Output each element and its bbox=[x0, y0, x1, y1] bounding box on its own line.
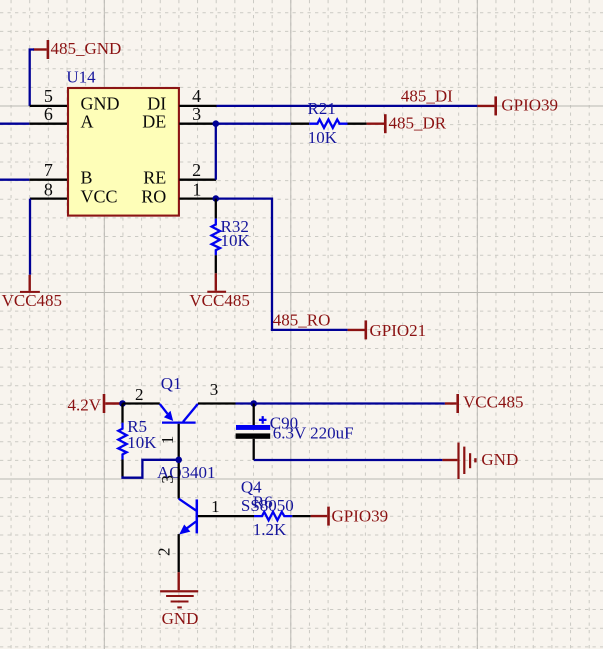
node junction RO bbox=[213, 195, 220, 202]
pin 6 A bbox=[29, 104, 93, 131]
svg-text:U14: U14 bbox=[66, 68, 96, 87]
resistor R32 bbox=[212, 199, 251, 274]
wire net B left bbox=[0, 179, 29, 181]
pin 5 GND bbox=[30, 86, 120, 114]
pin 7 B bbox=[29, 160, 92, 188]
port VCC485 right bbox=[445, 393, 524, 414]
node junction DE bbox=[213, 120, 220, 127]
svg-text:4.2V: 4.2V bbox=[68, 396, 102, 415]
svg-text:1: 1 bbox=[192, 179, 201, 199]
ground GND right bbox=[442, 443, 518, 480]
port GPIO39 top bbox=[477, 95, 558, 115]
svg-text:GPIO39: GPIO39 bbox=[332, 506, 389, 525]
svg-text:2: 2 bbox=[154, 548, 173, 557]
wire 485_GND vertical to pin5 bbox=[30, 50, 34, 106]
IC U14 RS-485 transceiver body bbox=[66, 68, 178, 216]
svg-text:RE: RE bbox=[143, 167, 166, 187]
wire gate/collector vertical bbox=[178, 424, 180, 499]
pin 8 VCC bbox=[30, 179, 118, 206]
pin 4 DI bbox=[147, 86, 216, 114]
port 485_DR bbox=[367, 114, 447, 134]
svg-text:3: 3 bbox=[210, 380, 219, 399]
wire pin8 to power bbox=[29, 199, 31, 275]
svg-text:10K: 10K bbox=[221, 231, 251, 250]
svg-text:485_GND: 485_GND bbox=[51, 39, 122, 58]
port 4.2V bbox=[68, 394, 123, 415]
wire net RO bbox=[216, 199, 348, 330]
power VCC485 left bbox=[2, 275, 62, 310]
resistor R5 bbox=[118, 404, 157, 477]
svg-text:485_DI: 485_DI bbox=[401, 87, 453, 106]
svg-text:10K: 10K bbox=[127, 433, 157, 452]
capacitor C90 bbox=[236, 404, 354, 461]
svg-text:B: B bbox=[81, 167, 93, 187]
node junction 4.2V bbox=[119, 400, 126, 407]
port 485_GND bbox=[33, 39, 121, 59]
svg-text:R21: R21 bbox=[308, 99, 336, 118]
wire Q4 emitter down bbox=[178, 534, 180, 572]
svg-text:VCC485: VCC485 bbox=[2, 291, 62, 310]
wire R5 bottom loop to gate bbox=[123, 460, 179, 478]
svg-text:3: 3 bbox=[158, 475, 177, 484]
svg-text:1: 1 bbox=[158, 436, 177, 445]
svg-text:RO: RO bbox=[141, 186, 166, 206]
power VCC485 mid bbox=[189, 273, 249, 310]
ground GND bottom bbox=[160, 572, 198, 628]
wire net DE to R21 and down to RE bbox=[216, 124, 291, 180]
svg-text:GPIO21: GPIO21 bbox=[370, 321, 427, 340]
svg-text:GND: GND bbox=[162, 609, 199, 628]
svg-text:GND: GND bbox=[481, 450, 518, 469]
svg-text:6.3V 220uF: 6.3V 220uF bbox=[273, 424, 354, 443]
svg-text:A: A bbox=[81, 111, 94, 131]
pin 2 RE bbox=[143, 160, 216, 188]
svg-text:R6: R6 bbox=[253, 493, 273, 512]
svg-text:6: 6 bbox=[44, 104, 53, 124]
transistor Q1 bbox=[123, 374, 236, 482]
wire ground rail bbox=[254, 459, 443, 461]
transistor Q4 bbox=[154, 477, 293, 556]
pin 1 RO bbox=[141, 179, 216, 206]
svg-text:2: 2 bbox=[192, 160, 201, 180]
svg-text:7: 7 bbox=[44, 160, 53, 180]
svg-text:485_DR: 485_DR bbox=[389, 114, 447, 133]
resistor R6 bbox=[253, 493, 311, 539]
svg-text:VCC485: VCC485 bbox=[189, 291, 249, 310]
pin 3 DE bbox=[142, 104, 216, 131]
svg-text:VCC: VCC bbox=[81, 186, 118, 206]
svg-text:DE: DE bbox=[142, 111, 166, 131]
svg-text:VCC485: VCC485 bbox=[463, 393, 523, 412]
svg-text:1: 1 bbox=[211, 497, 220, 516]
svg-text:485_RO: 485_RO bbox=[273, 310, 331, 329]
svg-text:8: 8 bbox=[44, 179, 53, 199]
node junction gate bbox=[175, 457, 182, 464]
svg-text:10K: 10K bbox=[308, 128, 338, 147]
wire net A left bbox=[0, 123, 29, 125]
pin Q4 base bbox=[198, 515, 254, 517]
port GPIO39 bottom bbox=[311, 506, 389, 525]
wire net 485_DI bbox=[217, 87, 478, 106]
node junction C90 top bbox=[250, 400, 257, 407]
svg-text:1.2K: 1.2K bbox=[253, 520, 287, 539]
svg-text:Q1: Q1 bbox=[161, 374, 182, 393]
svg-text:3: 3 bbox=[192, 104, 201, 124]
resistor R21 bbox=[291, 99, 367, 147]
svg-text:GPIO39: GPIO39 bbox=[501, 95, 558, 114]
port GPIO21 bbox=[348, 320, 427, 340]
svg-text:2: 2 bbox=[135, 385, 144, 404]
wire VCC485 top rail bbox=[236, 402, 445, 404]
pin number 3 rotated Q4 collector bbox=[158, 475, 177, 484]
